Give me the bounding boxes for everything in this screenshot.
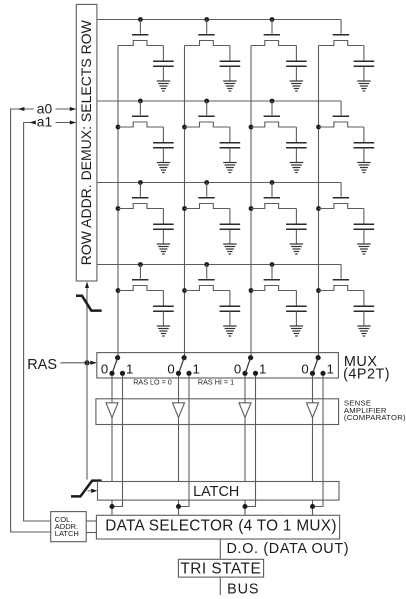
- wire word line row 1: [97, 19, 341, 21]
- junction bit line col 2 row 4: [182, 288, 187, 293]
- junction word line tap Q32: [204, 180, 209, 185]
- rising edge symbol on latch strobe: [71, 481, 102, 497]
- capacitor C23: [286, 127, 307, 163]
- junction bit line col 1 row 2: [116, 125, 121, 130]
- sense amp buffer A1: [106, 403, 118, 418]
- junction word line tap Q13: [270, 17, 275, 22]
- label SENSE: [344, 399, 371, 408]
- label LATCH: [193, 484, 239, 500]
- wire bit 4 path0 mux to sense: [312, 376, 314, 404]
- label 1 switch S4: [327, 362, 334, 377]
- wire bit 1 path1 mux to merge: [112, 376, 123, 507]
- transistor Q44: [319, 265, 364, 291]
- svg-text:LATCH: LATCH: [55, 529, 79, 538]
- mux box: [97, 353, 339, 378]
- junction bit line col 4 row 3: [316, 206, 321, 211]
- svg-text:RAS: RAS: [27, 357, 57, 373]
- svg-text:0: 0: [101, 362, 108, 377]
- svg-text:D.O. (DATA OUT): D.O. (DATA OUT): [227, 541, 350, 557]
- row address demux box U1: [76, 4, 97, 281]
- transistor Q33: [251, 183, 296, 209]
- wire strobe into latch: [88, 490, 95, 492]
- junction bit line col 3 row 4: [249, 288, 254, 293]
- sense amp buffer A2: [173, 403, 185, 418]
- switch S1 contact 1: [120, 371, 125, 376]
- wire a1 to demux: [56, 122, 76, 124]
- ground cell Q43: [290, 326, 303, 336]
- label a0: [37, 102, 53, 117]
- capacitor C41: [153, 291, 174, 327]
- svg-text:ROW ADDR. DEMUX: SELECTS ROW: ROW ADDR. DEMUX: SELECTS ROW: [78, 19, 94, 265]
- capacitor C32: [220, 209, 241, 245]
- label (COMPARATOR): [344, 413, 406, 422]
- sense amp buffer A3: [239, 403, 251, 418]
- transistor Q32: [185, 183, 230, 209]
- junction word line tap Q12: [204, 17, 209, 22]
- junction bit line col 1 row 4: [116, 288, 121, 293]
- ground cell Q34: [357, 244, 370, 254]
- transistor Q41: [118, 265, 163, 291]
- junction merge bit 4: [310, 504, 315, 509]
- svg-text:0: 0: [167, 362, 174, 377]
- wire bit 2 path0 latch to selector: [178, 500, 180, 515]
- arrowhead strobe into latch: [91, 489, 97, 493]
- transistor Q31: [118, 183, 163, 209]
- junction merge bit 1: [110, 504, 115, 509]
- falling edge symbol on row strobe: [76, 296, 102, 311]
- wire bit 3 path0 mux to sense: [244, 376, 246, 404]
- junction RAS strobe: [85, 360, 90, 365]
- wire bit 2 path0 sense to latch: [178, 418, 180, 482]
- label COL.: [55, 515, 73, 524]
- data selector box: [96, 515, 339, 539]
- wire RAS strobe up to demux: [86, 287, 88, 363]
- capacitor C22: [220, 127, 241, 163]
- capacitor C33: [286, 209, 307, 245]
- junction merge bit 2: [176, 504, 181, 509]
- transistor Q21: [118, 101, 163, 127]
- junction bit line col 3 row 2: [249, 125, 254, 130]
- arrowhead a1 left: [29, 121, 36, 125]
- wire bit 1 path0 latch to selector: [111, 500, 113, 515]
- transistor Q11: [118, 20, 163, 46]
- ground cell Q23: [290, 163, 303, 173]
- label 1 switch S2: [193, 362, 200, 377]
- junction word line tap Q43: [270, 262, 275, 267]
- column address latch box: [51, 512, 86, 542]
- svg-text:0: 0: [301, 362, 308, 377]
- wire bit 4 path1 mux to merge: [313, 376, 324, 507]
- capacitor C14: [354, 46, 375, 82]
- svg-text:LATCH: LATCH: [193, 484, 239, 500]
- label ROW ADDR. DEMUX: SELECTS ROW: [78, 19, 94, 265]
- junction bit line col 3 row 3: [249, 206, 254, 211]
- switch S2 lever: [179, 358, 184, 374]
- wire col latch out lower: [86, 532, 96, 534]
- svg-text:0: 0: [234, 362, 241, 377]
- ground cell Q22: [223, 163, 236, 173]
- wire a1 feedback (left vertical): [24, 123, 51, 522]
- label ADDR.: [55, 522, 78, 531]
- wire bit line column 3: [250, 46, 252, 358]
- wire bit 2 path1 mux to merge: [179, 376, 190, 507]
- wire word line row 2: [97, 100, 341, 102]
- transistor Q42: [185, 265, 230, 291]
- wire word line row 4: [97, 264, 341, 266]
- junction word line tap Q31: [138, 180, 143, 185]
- wire bit 3 path0 sense to latch: [244, 418, 246, 482]
- sense amp buffer A4: [307, 403, 319, 418]
- svg-text:a1: a1: [37, 115, 52, 130]
- wire bit 1 path0 mux to sense: [111, 376, 113, 404]
- label 0 switch S1: [101, 362, 108, 377]
- wire bit 3 path0 latch to selector: [244, 500, 246, 515]
- wire bit 3 path1 mux to merge: [245, 376, 256, 507]
- junction word line tap Q42: [204, 262, 209, 267]
- ground cell Q24: [357, 163, 370, 173]
- switch S4 common: [316, 355, 321, 360]
- transistor Q23: [251, 101, 296, 127]
- arrowhead a1 into demux: [70, 121, 77, 125]
- switch S4 contact 1: [320, 371, 325, 376]
- switch S1 lever: [112, 358, 117, 374]
- junction bit line col 2 row 2: [182, 125, 187, 130]
- label D.O. (DATA OUT): [227, 541, 350, 557]
- ground cell Q12: [223, 81, 236, 91]
- switch S3 common: [248, 355, 253, 360]
- junction word line tap Q22: [204, 99, 209, 104]
- svg-text:1: 1: [259, 362, 266, 377]
- ground cell Q14: [357, 81, 370, 91]
- wire a0 feedback (left vertical): [11, 109, 51, 532]
- capacitor C13: [286, 46, 307, 82]
- label 1 switch S3: [259, 362, 266, 377]
- wire to bus: [219, 577, 221, 595]
- wire bit line column 2: [184, 46, 186, 358]
- capacitor C34: [354, 209, 375, 245]
- label 0 switch S4: [301, 362, 308, 377]
- wire bit 2 path0 mux to sense: [178, 376, 180, 404]
- wire col latch out upper: [86, 520, 96, 522]
- sense amplifier box: [96, 399, 339, 425]
- label BUS: [227, 582, 259, 598]
- wire RAS strobe down to latch: [86, 363, 88, 480]
- ground cell Q31: [157, 244, 170, 254]
- label RAS: [27, 357, 57, 373]
- label RAS HI = 1: [198, 377, 234, 386]
- label AMPLIFIER: [344, 406, 387, 415]
- switch S1 common: [115, 355, 120, 360]
- capacitor C31: [153, 209, 174, 245]
- label MUX: [344, 354, 378, 370]
- svg-text:BUS: BUS: [227, 582, 259, 598]
- junction word line tap Q21: [138, 99, 143, 104]
- junction word line tap Q11: [138, 17, 143, 22]
- ground cell Q21: [157, 163, 170, 173]
- junction word line tap Q23: [270, 99, 275, 104]
- arrowhead strobe into demux bottom: [85, 282, 89, 289]
- junction bit line col 4 row 4: [316, 288, 321, 293]
- ground cell Q32: [223, 244, 236, 254]
- transistor Q22: [185, 101, 230, 127]
- label RAS LO = 0: [133, 377, 172, 386]
- transistor Q13: [251, 20, 296, 46]
- switch S2 contact 0: [176, 371, 181, 376]
- label 0 switch S3: [234, 362, 241, 377]
- ground cell Q11: [157, 81, 170, 91]
- wire bit line column 1: [117, 46, 119, 358]
- transistor Q34: [319, 183, 364, 209]
- switch S2 common: [182, 355, 187, 360]
- svg-text:TRI STATE: TRI STATE: [180, 561, 261, 578]
- switch S1 contact 0: [109, 371, 114, 376]
- svg-text:(4P2T): (4P2T): [343, 366, 390, 382]
- svg-text:RAS LO = 0: RAS LO = 0: [133, 377, 172, 386]
- latch box: [98, 482, 340, 501]
- wire data out: [219, 539, 221, 559]
- junction bit line col 2 row 3: [182, 206, 187, 211]
- transistor Q12: [185, 20, 230, 46]
- label 1 switch S1: [126, 362, 133, 377]
- label DATA SELECTOR (4 TO 1 MUX): [105, 518, 336, 535]
- capacitor C44: [354, 291, 375, 327]
- capacitor C21: [153, 127, 174, 163]
- svg-text:RAS HI = 1: RAS HI = 1: [198, 377, 234, 386]
- capacitor C12: [220, 46, 241, 82]
- junction bit line col 4 row 2: [316, 125, 321, 130]
- label LATCH small: [55, 529, 79, 538]
- switch S3 contact 0: [242, 371, 247, 376]
- capacitor C42: [220, 291, 241, 327]
- tri state box: [178, 559, 263, 577]
- capacitor C24: [354, 127, 375, 163]
- wire word line row 3: [97, 182, 341, 184]
- junction word line tap Q41: [138, 262, 143, 267]
- ground cell Q41: [157, 326, 170, 336]
- ground cell Q44: [357, 326, 370, 336]
- ground cell Q33: [290, 244, 303, 254]
- label (4P2T): [343, 366, 390, 382]
- wire bit line column 4: [318, 46, 320, 358]
- transistor Q43: [251, 265, 296, 291]
- label TRI STATE: [180, 561, 261, 578]
- wire a0 to demux: [56, 108, 76, 110]
- wire bit 4 path0 latch to selector: [312, 500, 314, 515]
- svg-text:1: 1: [193, 362, 200, 377]
- label 0 switch S2: [167, 362, 174, 377]
- svg-text:1: 1: [327, 362, 334, 377]
- transistor Q24: [319, 101, 364, 127]
- svg-text:(COMPARATOR): (COMPARATOR): [344, 413, 406, 422]
- switch S2 contact 1: [186, 371, 191, 376]
- ground cell Q13: [290, 81, 303, 91]
- capacitor C43: [286, 291, 307, 327]
- arrowhead RAS into mux: [90, 361, 97, 365]
- svg-text:DATA SELECTOR (4 TO 1 MUX): DATA SELECTOR (4 TO 1 MUX): [105, 518, 336, 535]
- ground cell Q42: [223, 326, 236, 336]
- switch S3 contact 1: [253, 371, 258, 376]
- label a1: [37, 115, 52, 130]
- arrowhead a0 into demux: [70, 107, 77, 111]
- switch S4 lever: [313, 358, 318, 374]
- svg-text:1: 1: [126, 362, 133, 377]
- junction bit line col 1 row 3: [116, 206, 121, 211]
- wire bit 4 path0 sense to latch: [312, 418, 314, 482]
- transistor Q14: [319, 20, 364, 46]
- wire bit 1 path0 sense to latch: [111, 418, 113, 482]
- switch S3 lever: [245, 358, 250, 374]
- junction word line tap Q33: [270, 180, 275, 185]
- junction merge bit 3: [243, 504, 248, 509]
- wire RAS to mux: [61, 362, 96, 364]
- switch S4 contact 0: [310, 371, 315, 376]
- arrowhead a0 left: [18, 107, 25, 111]
- capacitor C11: [153, 46, 174, 82]
